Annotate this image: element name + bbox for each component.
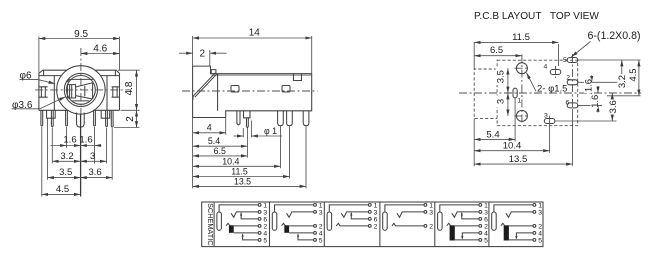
svg-text:4: 4: [207, 123, 212, 133]
svg-text:4.8: 4.8: [124, 81, 135, 95]
svg-text:5: 5: [538, 237, 542, 244]
pcb pads vertical centerline: [572, 54, 574, 109]
dimension 9.5: [39, 29, 120, 73]
svg-text:1.6: 1.6: [590, 95, 601, 108]
front view left peg: [47, 110, 56, 118]
pad 6: [566, 99, 578, 108]
svg-text:4.5: 4.5: [628, 68, 639, 81]
side pin extension lines: [193, 118, 306, 189]
dimension 2 (side barrel): [179, 49, 227, 67]
front view outer barrel circle: [57, 66, 105, 114]
front view left peg pin lines: [51, 110, 53, 118]
pcb mounting hole lower: [515, 110, 530, 121]
svg-text:6: 6: [566, 99, 570, 106]
svg-text:1.6: 1.6: [63, 135, 76, 146]
dimension 6.5 (pcb): [474, 45, 522, 56]
side view top bump: [211, 70, 216, 74]
svg-text:1: 1: [538, 202, 542, 209]
dimension 14: [193, 27, 312, 73]
side view pin phi-1 shank: [247, 118, 249, 128]
svg-text:3: 3: [374, 209, 378, 216]
front view body outline: [39, 70, 120, 110]
dimension row 3.2 / 3: [52, 151, 106, 162]
front view pin 1: [41, 110, 43, 126]
dimension 1.6 upper (pcb): [583, 75, 594, 100]
svg-text:4.6: 4.6: [93, 43, 107, 54]
svg-text:10.4: 10.4: [503, 141, 522, 152]
dimension 4 (side): [193, 123, 226, 133]
svg-text:SCHEMATIC: SCHEMATIC: [206, 203, 215, 245]
svg-text:P.C.B LAYOUT TOP VIEW: P.C.B LAYOUT TOP VIEW: [474, 11, 599, 22]
svg-text:3: 3: [263, 209, 267, 216]
svg-text:2: 2: [319, 223, 323, 230]
svg-text:φ 1: φ 1: [264, 126, 277, 136]
front view pin 5: [106, 118, 108, 126]
svg-text:2: 2: [538, 223, 542, 230]
schematic cell 4: [380, 202, 433, 247]
svg-text:4: 4: [538, 230, 542, 237]
dimension row 3.5 / 3.6: [48, 167, 113, 178]
svg-text:10.4: 10.4: [222, 156, 239, 166]
svg-text:5.4: 5.4: [486, 129, 499, 140]
pcb holes vertical centerline: [521, 55, 523, 125]
side view hole square right: [282, 86, 290, 93]
front view right peg pin lines: [106, 110, 108, 118]
pad 2: [566, 74, 578, 84]
svg-text:3: 3: [90, 151, 95, 162]
dimension 3.5 (pcb): [496, 68, 508, 93]
schematic cell 1: [217, 202, 268, 244]
dimension 5.4 (pcb): [474, 99, 515, 167]
dimension 2 (front pins): [114, 110, 140, 127]
svg-text:6: 6: [374, 216, 378, 223]
side view body outline: [193, 66, 312, 117]
svg-text:6-(1.2X0.8): 6-(1.2X0.8): [588, 30, 641, 42]
side view hole square left: [231, 86, 239, 93]
svg-text:2: 2: [374, 223, 378, 230]
svg-text:3.2: 3.2: [60, 151, 73, 162]
dimension 4.8: [118, 70, 140, 110]
svg-text:1: 1: [374, 202, 378, 209]
svg-text:3: 3: [496, 99, 507, 104]
dimension 13.5 (side): [193, 176, 306, 186]
svg-text:11.5: 11.5: [231, 166, 248, 176]
front view left tab hole: [39, 87, 48, 97]
pad 3: [544, 112, 555, 153]
svg-text:1: 1: [319, 202, 323, 209]
svg-text:6.5: 6.5: [214, 146, 226, 156]
front view vertical centerline: [80, 48, 82, 114]
schematic cell 5: [435, 202, 488, 247]
side view inner wall: [217, 74, 219, 111]
front view inner cavity detail: [67, 79, 93, 101]
svg-text:1.6: 1.6: [79, 135, 92, 146]
dimension row 1.6 / 1.6: [51, 135, 102, 147]
pad 5: [563, 57, 578, 64]
dimension 3.6 (pcb): [608, 93, 619, 121]
dimension 3 (pcb): [496, 93, 508, 116]
svg-text:2: 2: [263, 223, 267, 230]
svg-text:4: 4: [319, 230, 323, 237]
svg-text:3.2: 3.2: [617, 75, 628, 88]
pcb right extension lines: [555, 60, 641, 121]
dimension 6.5 (side): [193, 146, 248, 156]
dimension 1.6 lower (pcb): [590, 86, 601, 112]
svg-text:5: 5: [484, 237, 488, 244]
dimension 5.4 (side): [193, 136, 248, 146]
svg-text:6.5: 6.5: [490, 45, 503, 56]
svg-text:13.5: 13.5: [509, 154, 528, 165]
front view pin 4: [94, 110, 96, 126]
front view horizontal centerline: [35, 89, 131, 91]
svg-text:14: 14: [249, 27, 261, 38]
schematic strip frame: [202, 202, 543, 247]
front view inner hole circle: [67, 76, 96, 105]
svg-text:1.6: 1.6: [583, 79, 594, 92]
front view pin 3: [66, 110, 68, 126]
front view flange circle: [64, 73, 97, 106]
pad 1: [513, 88, 521, 104]
dimension 4.6: [81, 43, 120, 54]
dimension 10.4 (side): [193, 156, 281, 166]
svg-text:2: 2: [566, 74, 570, 81]
svg-text:4: 4: [484, 230, 488, 237]
svg-text:3.5: 3.5: [496, 70, 507, 83]
dimension 11.5 (pcb): [474, 32, 558, 69]
svg-text:3: 3: [538, 209, 542, 216]
svg-text:3: 3: [544, 112, 548, 119]
label 2-phi1.5: [527, 73, 568, 95]
front pin extension lines: [42, 119, 112, 197]
svg-text:1: 1: [263, 202, 267, 209]
front view ear edges: [54, 76, 107, 111]
svg-text:2: 2: [429, 223, 433, 230]
pcb dashed barrel outline: [474, 69, 497, 118]
svg-text:3: 3: [429, 209, 433, 216]
side view pin D: [287, 111, 293, 126]
svg-text:6: 6: [263, 216, 267, 223]
front view right peg: [101, 110, 110, 118]
schematic label cell divider: [213, 202, 215, 247]
svg-text:2: 2: [125, 116, 136, 122]
svg-text:3: 3: [319, 209, 323, 216]
svg-text:5: 5: [319, 237, 323, 244]
side view pin phi-1 head: [244, 111, 251, 118]
side view top notch: [294, 74, 302, 81]
svg-text:3: 3: [484, 209, 488, 216]
svg-text:3.6: 3.6: [608, 100, 619, 113]
svg-text:3.5: 3.5: [59, 167, 72, 178]
svg-text:5: 5: [263, 237, 267, 244]
pcb mounting hole upper: [515, 63, 530, 74]
pcb dashed body outline: [497, 60, 578, 126]
dimension row 4.5: [42, 184, 81, 195]
svg-text:3.6: 3.6: [88, 167, 101, 178]
svg-text:1: 1: [517, 97, 521, 104]
side view centerline: [182, 90, 318, 92]
svg-text:4: 4: [544, 64, 548, 71]
schematic cell 3: [324, 202, 377, 247]
pcb horizontal centerline: [459, 92, 641, 94]
svg-text:11.5: 11.5: [512, 32, 530, 43]
front view pin 2: [51, 118, 53, 126]
schematic cell 6: [489, 202, 542, 247]
svg-text:13.5: 13.5: [234, 176, 251, 186]
pad 4: [544, 64, 561, 79]
svg-text:1: 1: [484, 202, 488, 209]
svg-text:6: 6: [484, 216, 488, 223]
label phi-3.6: [12, 97, 66, 111]
side view pin C: [278, 111, 284, 126]
svg-text:2: 2: [200, 49, 206, 60]
schematic cell 2: [270, 202, 323, 247]
dimension 4.5 (pcb): [628, 60, 639, 96]
dimension 10.4 (pcb): [474, 141, 549, 152]
label phi-6: [20, 70, 56, 83]
svg-text:5: 5: [563, 57, 567, 64]
front view right tab hole: [112, 87, 120, 97]
dimension 3.2 (pcb): [617, 60, 628, 90]
svg-text:4: 4: [263, 230, 267, 237]
side view top edge shading line: [212, 74, 312, 76]
dimension 11.5 (side): [193, 166, 290, 176]
side view pin E: [303, 111, 309, 126]
side view spring lever: [193, 73, 217, 100]
label phi-1: [234, 121, 283, 138]
svg-text:2: 2: [484, 223, 488, 230]
label 6-(1.2X0.8): [572, 30, 641, 57]
side view pin A: [237, 111, 240, 125]
svg-text:9.5: 9.5: [74, 29, 88, 40]
front view pin 6: [111, 110, 113, 127]
svg-text:4.5: 4.5: [56, 184, 69, 195]
dimension 13.5 (pcb): [474, 109, 572, 166]
svg-text:2- φ1.5: 2- φ1.5: [537, 84, 567, 95]
front view center pin: [77, 113, 85, 128]
svg-text:1: 1: [429, 202, 433, 209]
svg-text:5.4: 5.4: [208, 136, 220, 146]
